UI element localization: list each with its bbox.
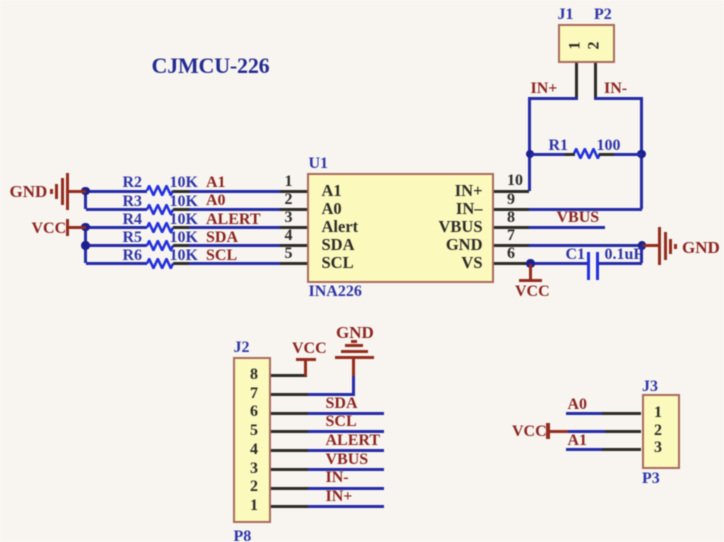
U1 right pin 6 stub — [494, 262, 529, 265]
U1 pin number 4 — [0, 227, 293, 246]
U1 pin number 2 — [0, 191, 293, 210]
wire C1 right — [599, 262, 642, 265]
R4 value 10K — [170, 211, 198, 230]
R6 right pin — [173, 262, 189, 265]
R2 designator — [123, 174, 143, 193]
power symbol GND earth (J2) — [0, 0, 1, 1]
net label IN- — [604, 80, 627, 99]
wire A0 (J3) — [566, 412, 602, 415]
R2 value 10K — [170, 174, 198, 193]
net label SDA — [206, 229, 238, 248]
net label ALERT — [206, 211, 261, 230]
connector P2 label — [594, 6, 612, 25]
U1 pin name SDA — [322, 235, 355, 254]
power symbol GND (left) — [0, 0, 1, 1]
C1 value 0.1uF — [605, 246, 644, 265]
VCC text (J2) — [292, 340, 327, 359]
resistor R3 zigzag — [146, 204, 174, 215]
connector P8 label — [234, 528, 252, 542]
U1 designator — [309, 155, 329, 174]
power symbol VCC (J2) — [296, 358, 316, 361]
VCC text (J3) — [512, 423, 547, 442]
wire VBUS net — [529, 226, 605, 229]
junction GND/R2 — [81, 187, 89, 195]
R3 designator — [123, 193, 143, 212]
power symbol VCC (J3) — [546, 423, 549, 440]
wire GND pin7 — [529, 244, 642, 247]
wire IN+ horizontal — [528, 97, 578, 100]
J1 pin 1 stub — [575, 63, 578, 100]
wire R2 left — [86, 190, 147, 193]
J2 pin 5 stub — [271, 430, 308, 433]
J2 pin number 5 — [104, 422, 404, 441]
J2 pin 1 stub — [271, 505, 308, 508]
J1 pin number 2 (rotated) — [586, 30, 605, 60]
wire R1 left — [530, 153, 565, 156]
U1 left pin 2 stub — [278, 208, 307, 211]
R5 value 10K — [170, 229, 198, 248]
U1 pin name IN+ — [183, 181, 483, 200]
net label A0 (J3) — [568, 396, 588, 415]
U1 pin number 10 — [507, 172, 523, 191]
U1 left pin 3 stub — [278, 226, 307, 229]
net label IN+ (J2) — [326, 488, 353, 507]
wire pin9 to IN- net — [529, 208, 642, 211]
J3 pin 1 stub — [602, 412, 641, 415]
connector J3 designator — [642, 378, 658, 397]
net label SCL (J2) — [326, 413, 357, 432]
U1 pin number 1 — [0, 173, 293, 192]
wire GND to bus — [68, 190, 86, 193]
wire J2 pin 2 — [308, 487, 384, 490]
U1 pin name A1 — [322, 181, 342, 200]
J2 pin 3 stub — [271, 468, 308, 471]
net label VBUS — [557, 209, 600, 228]
wire R6 left — [86, 262, 147, 265]
GND text (right) — [682, 238, 720, 258]
power symbol VCC (left) — [66, 219, 69, 237]
wire pin7 to GND — [308, 393, 355, 396]
J2 pin 4 stub — [271, 449, 308, 452]
U1 pin name IN&#8211; — [183, 199, 483, 218]
GND text (J2) — [336, 323, 374, 343]
net label A1 — [206, 174, 226, 193]
J3 pin 2 stub — [602, 430, 641, 433]
J2 pin number 1 — [104, 497, 404, 516]
wire IN+ vertical — [528, 98, 531, 191]
junction IN+ / R1 left — [526, 150, 534, 158]
junction GND/C1 — [638, 241, 646, 249]
VCC text (pin6) — [515, 283, 550, 302]
junction IN- / R1 right — [637, 150, 645, 158]
J2 pin number 6 — [104, 403, 404, 422]
power symbol GND (right) — [0, 0, 1, 1]
J2 pin number 8 — [104, 366, 404, 385]
capacitor C1 plate left — [587, 252, 590, 281]
wire J2 pin 4 — [308, 449, 384, 452]
R4 right pin — [173, 226, 189, 229]
U1 pin name GND — [183, 235, 483, 254]
J2 pin 7 stub — [271, 393, 308, 396]
connector P3 label — [642, 470, 660, 489]
U1 pin name A0 — [322, 199, 342, 218]
J1 pin number 1 (rotated) — [567, 30, 586, 60]
U1 right pin 9 stub — [494, 208, 529, 211]
J2 pin number 2 — [104, 478, 404, 497]
U1 left pin 5 stub — [278, 262, 307, 265]
wire R4 right — [189, 226, 280, 229]
R6 value 10K — [170, 247, 198, 266]
title CJMCU-226 — [152, 53, 270, 79]
connector J1 designator — [558, 6, 574, 25]
U1 pin number 3 — [0, 209, 293, 228]
wire R2 right — [189, 190, 280, 193]
junction VS/VCC — [526, 259, 534, 267]
R3 value 10K — [170, 193, 198, 212]
net label SDA (J2) — [326, 395, 358, 414]
wire VCC to bus — [67, 226, 86, 229]
J2 pin 6 stub — [271, 412, 308, 415]
J1 pin 2 stub — [594, 63, 597, 100]
connector J2 designator — [234, 339, 250, 358]
U1 right pin 7 stub — [494, 244, 529, 247]
wire VCC blue (J3) — [568, 430, 605, 433]
wire GND stem blue (J2) — [352, 376, 355, 395]
connector J2 body — [233, 357, 271, 523]
R1 left pin — [565, 153, 575, 156]
GND stem (J2) — [352, 359, 355, 376]
U1 right pin 8 stub — [494, 226, 529, 229]
U1 left pin 4 stub — [278, 244, 307, 247]
resistor R2 zigzag — [146, 185, 174, 196]
J3 pin 3 stub — [602, 448, 641, 451]
VCC text (left) — [32, 220, 67, 239]
R3 right pin — [173, 208, 189, 211]
net label ALERT (J2) — [326, 432, 381, 451]
U1 pin number 9 — [507, 191, 515, 210]
resistor R6 zigzag — [146, 258, 174, 269]
GND text (left) — [10, 182, 48, 202]
left bus vertical VCC section — [84, 227, 87, 263]
R5 designator — [123, 229, 143, 248]
resistor R1 zigzag — [573, 148, 601, 159]
resistor R5 zigzag — [146, 240, 174, 251]
capacitor C1 plate right — [596, 252, 599, 281]
left bus vertical GND section — [84, 191, 87, 209]
wire A1 (J3) — [566, 448, 602, 451]
J2 pin number 7 — [104, 385, 404, 404]
wire to GND symbol (right) — [642, 244, 660, 247]
wire IN- vertical — [640, 98, 643, 209]
wire R5 left — [86, 244, 147, 247]
net label IN- (J2) — [326, 469, 349, 488]
J2 pin number 4 — [104, 441, 404, 460]
IC U1 body — [307, 173, 494, 283]
U1 pin name VS — [183, 253, 483, 272]
wire C1 up to GND net — [640, 245, 643, 263]
wire R3 right — [189, 208, 280, 211]
U1 pin number 8 — [507, 209, 515, 228]
wire R4 left — [86, 226, 147, 229]
U1 pin number 5 — [0, 245, 293, 264]
junction R5 — [81, 241, 89, 249]
R6 designator — [123, 247, 143, 266]
net label VBUS (J2) — [326, 451, 369, 470]
wire VCC red (J3) — [548, 430, 568, 433]
U1 pin name Alert — [322, 217, 359, 236]
J2 pin 8 stub — [271, 374, 307, 377]
connector J3 body — [642, 394, 680, 469]
C1 designator — [566, 246, 586, 265]
net label A0 — [206, 192, 226, 211]
connector J1 body — [558, 24, 615, 63]
J3 pin number 3 — [508, 439, 724, 458]
wire R6 right — [189, 262, 280, 265]
U1 right pin 10 stub — [494, 190, 529, 193]
R1 value 100 — [597, 137, 621, 156]
junction VCC/R4 — [81, 223, 89, 231]
U1 pin name SCL — [322, 253, 354, 272]
J3 pin number 2 — [508, 422, 724, 441]
power symbol VCC (pin6) — [529, 264, 532, 281]
net label SCL — [206, 247, 237, 266]
wire IN- horizontal — [594, 97, 644, 100]
J2 pin 2 stub — [271, 487, 308, 490]
J3 pin number 1 — [508, 404, 724, 423]
net label A1 (J3) — [568, 432, 588, 451]
wire R5 right — [189, 244, 280, 247]
wire J2 pin 5 — [308, 430, 384, 433]
U1 pin name VBUS — [183, 217, 483, 236]
resistor R4 zigzag — [146, 222, 174, 233]
wire J2 pin 3 — [308, 468, 384, 471]
wire J2 pin 6 — [308, 412, 384, 415]
net label IN+ — [531, 80, 558, 99]
wire J2 pin 1 — [308, 505, 384, 508]
R1 designator — [549, 137, 569, 156]
U1 part value INA226 — [309, 283, 362, 302]
R2 right pin — [173, 190, 189, 193]
R5 right pin — [173, 244, 189, 247]
U1 pin number 6 — [507, 245, 515, 264]
U1 left pin 1 stub — [278, 190, 307, 193]
R4 designator — [123, 211, 143, 230]
wire R1 right — [614, 153, 642, 156]
wire VS pin6 left of C1 — [529, 262, 589, 265]
U1 pin number 7 — [507, 227, 515, 246]
J2 pin number 3 — [104, 460, 404, 479]
wire R3 left — [86, 208, 147, 211]
R1 right pin — [599, 153, 614, 156]
